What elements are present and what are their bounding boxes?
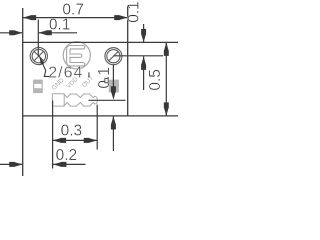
dimension 0.3 left arrow: [53, 138, 67, 143]
component body bottom edge + right extension: [22, 115, 178, 117]
pin1 tick: [88, 72, 90, 77]
dimension 0.2 outside arrow left: [9, 162, 23, 167]
pad P3 gray square (left, with slot): [33, 80, 43, 94]
pad P1 (top-left plated hole): [30, 48, 47, 65]
dimension 0.2 outside arrow right: [53, 162, 67, 167]
svg-text:0.3: 0.3: [61, 123, 83, 140]
pad P2 (top-right plated hole): [105, 48, 122, 65]
extension line pad1 center vertical: [37, 20, 39, 57]
pad P4 gray square (right): [109, 80, 119, 93]
dimension 0.1 middle arrow down: [111, 86, 116, 100]
dimension 0.1 top outside arrow left: [9, 30, 23, 35]
dimension 0.1 middle arrow up: [111, 116, 116, 130]
component body top edge + right extension: [23, 41, 178, 43]
leader arrowhead: [39, 57, 44, 65]
meander centerline extension (horizontal): [89, 99, 126, 101]
svg-text:0.1: 0.1: [126, 1, 143, 23]
dimension 0.3 line: [53, 139, 98, 141]
dimension 0.7 left arrow: [23, 15, 37, 20]
logo letter E (double outline): [68, 47, 83, 64]
extension line x=97.2 (meander right, down): [96, 105, 98, 150]
dimension 0.2 left tail: [0, 163, 23, 165]
dimension 0.1 top outside arrow right: [38, 30, 52, 35]
component body left edge / extension line: [22, 8, 24, 176]
svg-text:0.1: 0.1: [49, 17, 71, 34]
dimension 0.1 top-left line (outside tails): [0, 32, 23, 34]
dimension 0.1 right arrow up: [141, 56, 146, 70]
meander outline: [52, 94, 97, 106]
extension line pad2 center horizontal: [113, 55, 163, 57]
leader line from 2/64 text to pad P1: [40, 57, 51, 77]
dimension 0.1 right vertical (top edge to pad center): [143, 24, 145, 42]
component body right edge / extension line: [127, 6, 129, 116]
dimension 0.1 middle lower tail: [112, 116, 114, 151]
svg-text:2/64: 2/64: [48, 65, 83, 82]
logo circle (silkscreen marking): [63, 42, 90, 69]
meander divider: [63, 94, 65, 106]
svg-text:0.1: 0.1: [96, 67, 113, 89]
dimension 0.1 middle vertical (meander line to bottom edge): [112, 65, 114, 87]
dimension 0.5 line: [165, 42, 167, 116]
dimension 0.5 arrow down: [164, 102, 169, 116]
dimension 0.5 arrow up: [164, 42, 169, 56]
svg-text:0.5: 0.5: [147, 69, 164, 91]
dimension 0.7 line: [23, 17, 128, 19]
vertex handle square: [105, 78, 108, 82]
svg-text:0.2: 0.2: [56, 147, 78, 164]
dimension 0.3 right arrow: [84, 138, 98, 143]
dimension 0.7 right arrow: [114, 15, 128, 20]
dimension 0.1 right arrow down: [141, 29, 146, 43]
meander feature (fuse element outline): [52, 94, 97, 106]
dimension 0.2 right tail: [53, 163, 86, 165]
extension line x=52.6 (meander left, down): [52, 100, 54, 168]
